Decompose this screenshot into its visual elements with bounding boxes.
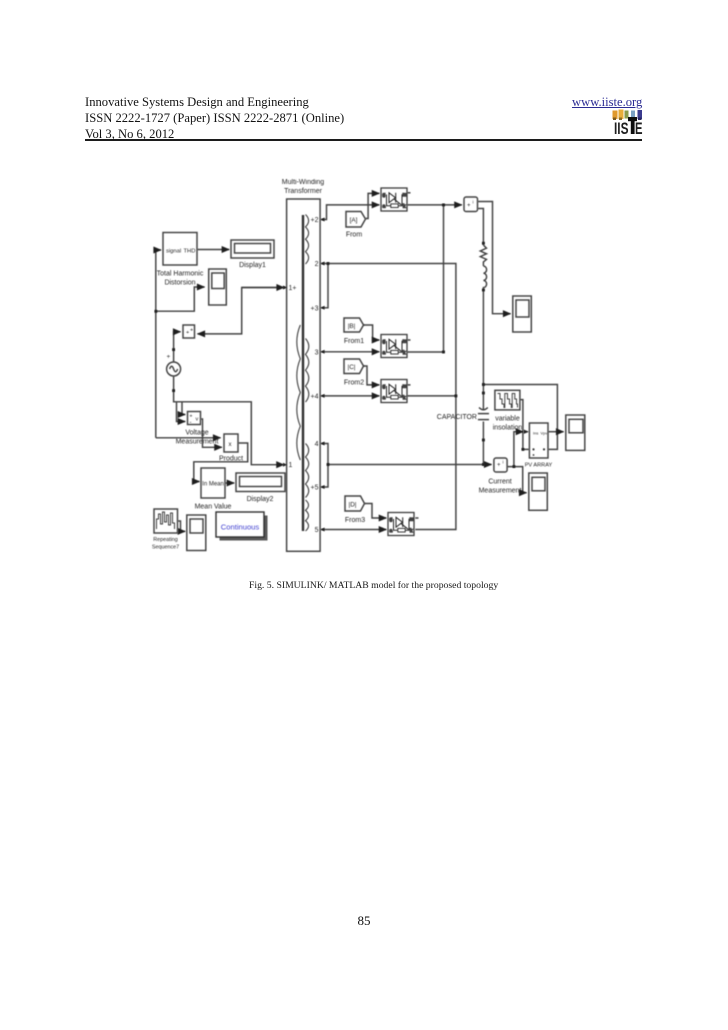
svg-text:Total Harmonic: Total Harmonic [157,271,204,278]
svg-text:3: 3 [315,349,319,356]
svg-text:+2: +2 [311,217,319,224]
svg-text:From1: From1 [344,338,364,345]
svg-text:PV ARRAY: PV ARRAY [525,463,553,469]
svg-text:signal: signal [166,249,181,255]
svg-text:+5: +5 [311,485,319,492]
svg-text:IIS: IIS [614,120,629,138]
svg-text:Repeating: Repeating [153,537,178,543]
svg-text:+: + [467,203,471,209]
svg-text:+: + [186,330,189,336]
svg-text:Vpv: Vpv [541,431,548,436]
svg-text:From: From [346,232,363,239]
svg-text:2: 2 [315,261,319,268]
svg-text:Current: Current [488,479,511,486]
svg-text:Continuous: Continuous [221,523,260,532]
svg-text:+: + [190,414,193,420]
svg-text:|B|: |B| [348,323,356,330]
svg-text:Measurement: Measurement [479,488,522,495]
svg-text:+: + [497,463,501,469]
svg-text:Display2: Display2 [247,496,274,503]
svg-text:|D|: |D| [349,502,357,509]
svg-text:THD: THD [184,249,196,255]
svg-text:1+: 1+ [289,285,297,292]
svg-text:-: - [190,420,192,426]
svg-text:4: 4 [315,441,319,448]
svg-text:x: x [229,442,232,448]
svg-text:[A]: [A] [350,217,358,224]
svg-text:Sequence7: Sequence7 [152,545,179,551]
svg-text:+: + [167,354,171,361]
svg-text:Distorsion: Distorsion [164,280,195,287]
svg-text:+: + [190,328,193,334]
svg-text:1: 1 [289,462,293,469]
svg-text:Product: Product [219,456,243,463]
svg-text:CAPACITOR: CAPACITOR [437,414,477,421]
svg-text:In Mean: In Mean [202,482,224,488]
svg-text:Display1: Display1 [239,262,266,269]
svg-text:5: 5 [315,527,319,534]
svg-text:+3: +3 [311,305,319,312]
svg-text:E: E [635,120,643,138]
svg-text:Voltage: Voltage [185,430,208,437]
svg-text:Mean Value: Mean Value [195,504,232,511]
svg-text:v: v [196,417,199,423]
svg-text:From3: From3 [345,517,365,524]
svg-text:Measurement: Measurement [176,439,219,446]
svg-text:|C|: |C| [348,364,356,371]
svg-text:From2: From2 [344,380,364,387]
svg-text:i: i [503,460,504,465]
svg-text:Multi-Winding: Multi-Winding [282,179,325,186]
svg-text:Ins: Ins [533,431,538,436]
svg-text:+4: +4 [311,393,319,400]
svg-text:insolation: insolation [493,425,523,432]
svg-text:Transformer: Transformer [284,188,323,195]
svg-text:variable: variable [495,416,520,423]
svg-text:i: i [473,200,474,205]
